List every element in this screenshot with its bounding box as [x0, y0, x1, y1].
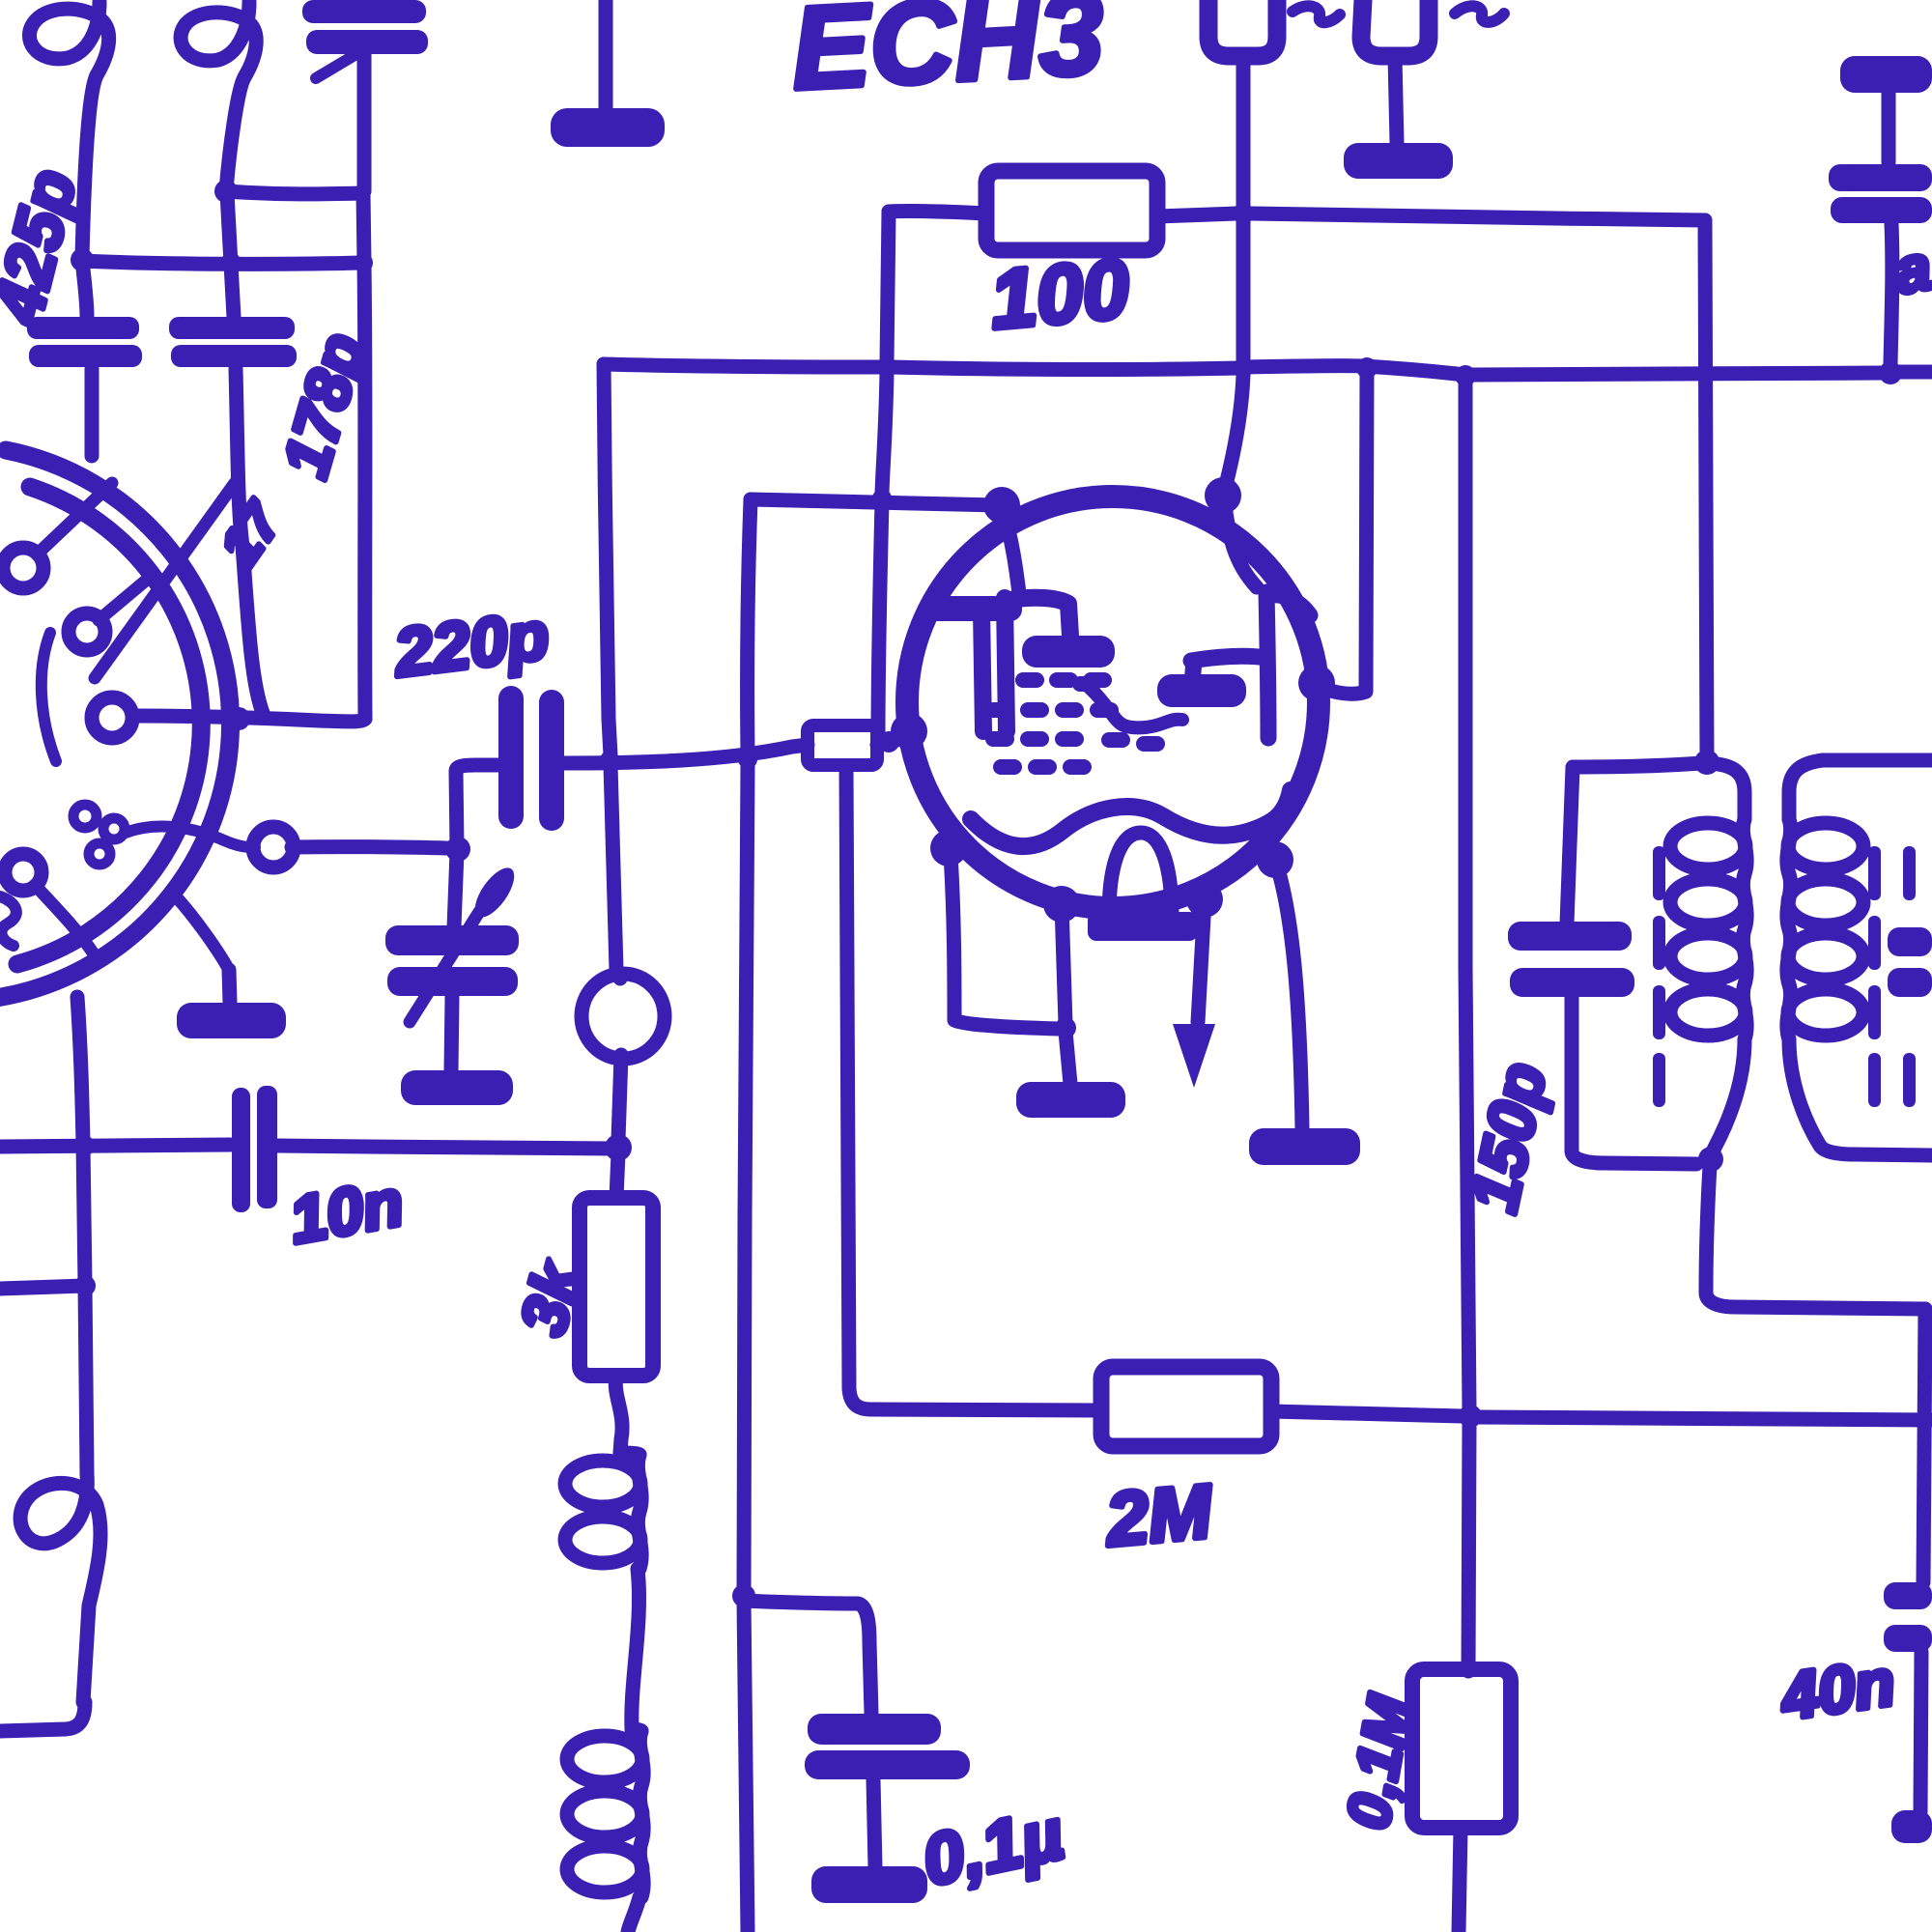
- transformer core dashed lines: [1653, 846, 1916, 1107]
- wire: node T down then right along H1352: [1706, 1165, 1925, 1309]
- socket pin P4 ring: [253, 827, 294, 867]
- tube interior: link T node down to right anode: [1224, 498, 1257, 587]
- inductor L4 lower section (3 loops): [632, 1729, 641, 1731]
- tube socket inner arc: [17, 487, 201, 964]
- capacitor C1 425p : top stem from node A: [82, 261, 87, 317]
- node K: lead/V1287 junction: [1233, 203, 1254, 224]
- capacitor C6 150p plates: [1508, 922, 1634, 997]
- wire: coil exit to bottom edge: [628, 1897, 639, 1932]
- tube interior: right anode foot: [1157, 674, 1246, 707]
- tube interior: grid dash rows: [985, 672, 1165, 775]
- wire: into resistor R2: [616, 1153, 618, 1198]
- ground G5 below socket: [229, 970, 230, 1003]
- svg-text:2M: 2M: [1101, 1468, 1217, 1562]
- node N: junction with H1185: [605, 1134, 632, 1161]
- wire: secondary top lead to right edge: [1823, 753, 1932, 768]
- wire: corner to left edge H1790: [0, 1702, 85, 1731]
- tube interior: right anode plates: [1191, 592, 1310, 738]
- socket centre squiggle cluster rings: [73, 805, 97, 828]
- tube V1 ECH3 envelope circle: [907, 497, 1319, 908]
- node F: trimmer junction: [445, 837, 470, 862]
- wire: H1185 from left edge to C5: [0, 1145, 230, 1147]
- wire: BL node down and across to cathode: [951, 854, 1059, 1029]
- svg-text:100: 100: [986, 242, 1132, 347]
- node Q: H1465/V1513 junction: [1459, 1405, 1482, 1428]
- ground G3 cathode: [1016, 1082, 1125, 1118]
- wire: V918 from resistor corner down to grid node: [878, 212, 889, 738]
- wire: antenna stem down to H1: [363, 54, 364, 263]
- grid cap connector box: [808, 725, 877, 765]
- capacitor C2 178p : bottom stem curving into H746: [236, 369, 263, 713]
- node C: corner H1 / V378: [354, 253, 373, 272]
- node H: H377/V918 cross: [877, 357, 896, 377]
- wire: straight between coil sections: [632, 1569, 639, 1729]
- node G: grid wire / V918 junction: [878, 731, 899, 753]
- node P: V777 junction to C7: [732, 1584, 755, 1607]
- wire: V1419 down right side of tube: [1320, 368, 1367, 694]
- wire: cluster link to pin P4 ring: [126, 827, 255, 847]
- variable capacitor C4 arrow: [410, 912, 479, 1022]
- capacitor C2 178p : top stem: [227, 193, 234, 317]
- wire: socket spoke to ground stem: [176, 896, 229, 970]
- node D: V85/H1185 junction: [73, 1135, 95, 1156]
- wire: grid lead from C3 to grid cap box: [564, 745, 808, 763]
- variable capacitor C4 plates: [385, 925, 519, 996]
- node: 178p stem merge on H746: [227, 707, 250, 730]
- wire: top bus continues to trimmer junction and right edge: [1472, 372, 1932, 375]
- antenna / aerial terminal symbol top: [302, 0, 428, 54]
- wire: V378 long vertical down to grid-coil loop corner: [364, 264, 365, 719]
- left edge squiggle: [0, 896, 16, 946]
- plug terminal U2 with ground G6: [1361, 0, 1429, 56]
- node A: junction of L1 lead with bus H1: [71, 248, 94, 271]
- ground G8 below variable capacitor: [451, 996, 452, 1070]
- wire: V625 from corner through grid-wire crossing: [604, 364, 616, 970]
- inductor loop above R2: [616, 970, 621, 1140]
- wire: aerial coil L1 top-left loop and lead down: [29, 2, 108, 257]
- wire: horizontal bus H1 from node A to V-corner right: [82, 261, 363, 264]
- node S: V1765 junction: [1694, 750, 1719, 775]
- resistor R1 100: [986, 171, 1157, 250]
- node T: transformer bottom junction: [1698, 1147, 1723, 1172]
- wire: H746 back to socket pin P3: [135, 716, 365, 722]
- tube interior: top-left electrode bar: [923, 596, 1022, 621]
- node O: V777/grid wire cross: [738, 750, 757, 769]
- node I: H377/V1287 junction: [1234, 358, 1253, 378]
- svg-text:ECH3: ECH3: [788, 0, 1106, 114]
- node L: cathode junction: [1055, 1017, 1076, 1038]
- wire: V1287 from plug down to tube top node: [1224, 56, 1243, 493]
- tube interior: wavy grid lead: [1090, 688, 1182, 727]
- wire: below R4 to bottom edge: [1459, 1828, 1461, 1932]
- ground G2 top centre: [599, 0, 613, 108]
- tube interior: left anode plates: [981, 598, 1070, 731]
- node: T junction of top bus and V1513: [1455, 365, 1476, 386]
- wire: R3 right lead to node Q and right edge: [1271, 1411, 1932, 1420]
- wire: H1330 stub to left edge: [0, 1286, 85, 1289]
- wire: below R2 wiggle: [615, 1376, 622, 1453]
- wire: V777 from H516 corner down to bottom edge: [744, 499, 751, 1932]
- filament arrow electrode: [1198, 899, 1205, 1022]
- trimmer capacitor C9 top right: T handle: [1882, 93, 1896, 162]
- IF transformer T1 primary winding: [1707, 763, 1745, 819]
- wire: V1765 from H220 corner down to transformer node: [1705, 220, 1707, 756]
- wire: V1513 from top bus down through node Q into R4: [1465, 376, 1469, 1671]
- wire: primary exit down to node T: [1714, 1039, 1745, 1150]
- capacitor C1 425p : bottom stem to socket arc: [85, 369, 99, 456]
- socket pin P3 ring (grid wire start): [92, 697, 132, 738]
- tube interior: left anode foot: [1022, 636, 1115, 668]
- squiggle mark right of plug U2: [1455, 6, 1504, 22]
- socket pin P5 ring and spoke: [5, 854, 42, 891]
- socket pin P2 ring and spoke: [69, 613, 105, 650]
- trimmer capacitor C9 plates: [1829, 164, 1932, 223]
- wire: junction up and over to C3 left plate: [456, 765, 500, 848]
- node B2: 178p stem crossing H1: [221, 252, 241, 271]
- plug terminal U1 top: [1208, 0, 1277, 56]
- wire: H217 corner to resistor R1: [889, 212, 986, 213]
- resistor R4 0,1M: [1412, 1669, 1511, 1828]
- node M: V625/grid wire cross: [600, 751, 619, 770]
- capacitor C3 220p plates: [498, 686, 564, 831]
- wire: pin P4 to trimmer junction: [292, 847, 446, 848]
- wire: V85 socket down through junctions: [77, 997, 87, 1474]
- socket pin P1 ring and spoke: [3, 548, 43, 588]
- ground G4: [1249, 1128, 1360, 1165]
- trimmer capacitor C9 bottom stem: [1890, 223, 1892, 364]
- capacitor C6 bottom stem and corner to transformer junction: [1572, 997, 1696, 1164]
- tube interior: link TL node to bar: [1004, 512, 1019, 593]
- tube interior: heater arch and base: [1109, 833, 1172, 916]
- inductor L3 single loop bottom-left: [20, 1474, 100, 1702]
- wire: H516 from V777 corner to tube node TL: [751, 499, 1000, 505]
- tube socket outer arc: [0, 450, 231, 998]
- wire: box to tube grid entry: [877, 732, 912, 745]
- capacitor at right edge mid: [1888, 927, 1932, 997]
- capacitor C2 178p : plates: [169, 317, 297, 367]
- node J: V918/H516 cross: [872, 489, 892, 508]
- socket spoke with pin number 17 crossing arcs: [95, 483, 235, 678]
- wire: H1658 to C7 stem: [744, 1601, 871, 1714]
- wire: cathode stem: [1062, 904, 1070, 1084]
- squiggle mark between plugs: [1293, 6, 1340, 22]
- tube nodes on envelope: [891, 477, 1335, 923]
- wire: C5 right lead to resistor chain: [277, 1146, 617, 1149]
- IF transformer T1 secondary winding: [1789, 760, 1823, 819]
- node B: junction grid-cap bus: [214, 180, 238, 203]
- wire: V876 from grid box down and corner to R3: [846, 766, 1101, 1410]
- inductor L4 upper section (2 loops): [620, 1453, 639, 1455]
- variable capacitor C4 stem: [454, 852, 457, 927]
- wire: H795 left to C6 stem: [1567, 763, 1702, 923]
- wire: R1 right lead to node K and on to V1765 corner: [1157, 213, 1705, 220]
- node R: H390/trimmer stem junction: [1879, 361, 1902, 384]
- tube interior: lower wave (mouth): [971, 790, 1291, 846]
- wire: secondary exit to corner and right edge H1192: [1789, 1039, 1932, 1155]
- wire: node B to antenna stem corner: [226, 191, 362, 194]
- wire: BR node down to ground G4: [1275, 860, 1302, 1128]
- node: T junction of top bus and V1419: [1356, 357, 1378, 379]
- wire: aerial coil L2 loop and lead down to node B: [181, 2, 256, 190]
- wire: H377 from corner over to right corner: [604, 364, 1457, 374]
- node E: V85/H1330 junction: [74, 1275, 96, 1296]
- resistor R2 3k: [580, 1198, 653, 1376]
- socket key curve: [42, 633, 56, 761]
- capacitor C1 425p : plates: [27, 317, 142, 367]
- capacitor C8 40n chain at right edge: [1923, 1309, 1925, 1582]
- resistor R3 2M: [1101, 1367, 1271, 1446]
- capacitor C5 10n plates: [232, 1086, 277, 1212]
- ground G7 below C7: [873, 1779, 875, 1868]
- capacitor C7 0,1u plates: [805, 1714, 970, 1779]
